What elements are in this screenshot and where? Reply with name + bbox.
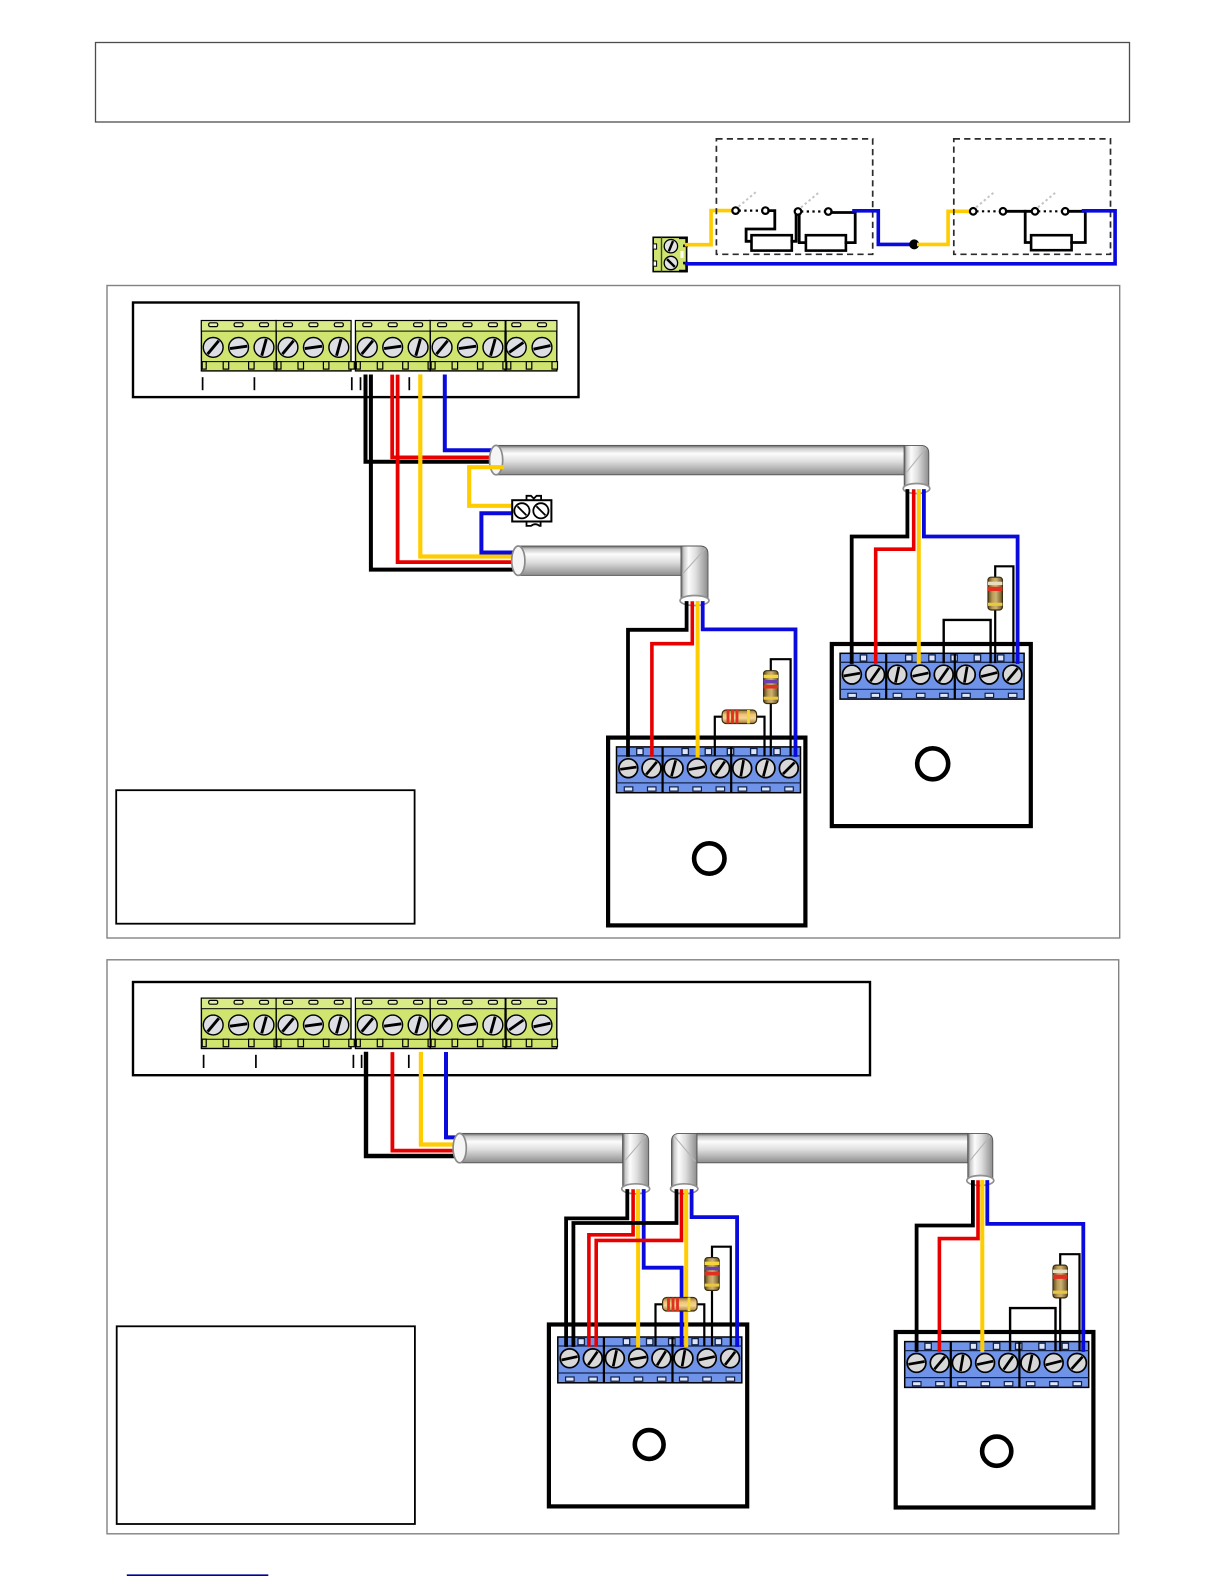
- resistor R4 bottom lead: [994, 610, 996, 662]
- conduit cable2 elbow: [680, 546, 709, 606]
- resistor R4 top lead: [995, 566, 1013, 662]
- wire blue panel2 to cable: [446, 1054, 463, 1137]
- switch S2: [795, 192, 832, 215]
- resistor R6 top lead: [771, 659, 791, 755]
- wire blue connector to cable2: [481, 513, 521, 552]
- wire yellow panel2 to cable: [421, 1054, 463, 1145]
- wire S2 to R2 left: [799, 215, 806, 243]
- panel terminal block B2: [276, 998, 354, 1048]
- dashed enclosure MCP2: [954, 139, 1111, 254]
- wire red panel2 to cable: [392, 1054, 463, 1151]
- wire yellow cable2 to device A: [696, 603, 700, 755]
- resistor R3: [1031, 235, 1072, 250]
- wire red cable1 to device B: [876, 491, 914, 662]
- panel terminal block A1: [201, 321, 279, 371]
- wire yellow to S3: [919, 211, 970, 244]
- wire red panel to cable2: [398, 377, 521, 563]
- conduit cable1 elbow: [903, 445, 930, 493]
- wire yellow panel to cable2: [420, 377, 521, 557]
- wire black cable1 to device B: [852, 491, 908, 662]
- resistor R7 left lead: [656, 1304, 663, 1345]
- resistor R7 right lead: [697, 1304, 704, 1345]
- wire tap to R3: [1025, 211, 1031, 242]
- resistor R5 left lead: [715, 717, 722, 755]
- control panel box loop1: [133, 303, 579, 398]
- tick marks panel loop1: [203, 377, 410, 390]
- panel terminal block B5: [506, 998, 558, 1048]
- resistor R1: [752, 235, 792, 250]
- terminal block TB1: [653, 237, 686, 271]
- connector block sounder: [512, 496, 551, 526]
- wire black cable2 to device A: [628, 603, 687, 755]
- call point device D box: [896, 1332, 1094, 1508]
- title box: [96, 43, 1130, 123]
- LED device B: [917, 748, 948, 779]
- wire blue panel to cable1: [445, 377, 499, 451]
- wire R2 to S2 output: [832, 213, 856, 243]
- wire blue cable2 to device D: [987, 1182, 1083, 1350]
- resistor R5 series: [722, 710, 757, 724]
- wire blue zone1 out: [854, 211, 911, 245]
- wire yellow TB1 to S1: [687, 211, 733, 245]
- tick marks panel loop2: [204, 1055, 409, 1068]
- resistor R6 bottom lead: [770, 704, 772, 755]
- wire black cable2 to device C: [573, 1191, 676, 1345]
- panel terminal block B4: [430, 998, 508, 1048]
- conduit cable2 loop2 left elbow: [671, 1133, 698, 1193]
- conduit cable2 loop2 right elbow: [967, 1133, 994, 1185]
- call point device B box: [832, 644, 1031, 826]
- wire yellow cable1 to connector: [469, 467, 512, 506]
- wire S3 to S4: [1006, 210, 1031, 213]
- wire yellow cable2 to device D: [980, 1182, 984, 1350]
- jumper wire device D: [1010, 1308, 1055, 1350]
- conduit cable 1 loop1: [490, 445, 905, 474]
- LED device A: [694, 843, 724, 873]
- call point device A box: [608, 738, 805, 926]
- conduit cable 2 loop1: [512, 546, 681, 575]
- hyperlink underline: [127, 1574, 268, 1576]
- wire red panel to cable1: [392, 377, 499, 458]
- resistor R5 right lead: [757, 717, 765, 755]
- terminal strip device B: [840, 653, 1024, 699]
- panel terminal block A4: [430, 321, 508, 371]
- conduit cable1 loop2: [453, 1133, 623, 1162]
- zone box loop2: [107, 960, 1119, 1534]
- wire black panel2 to cable: [366, 1054, 463, 1156]
- switch S3: [970, 191, 1006, 214]
- wire red cable1 to device C: [589, 1191, 633, 1345]
- wire yellow cable2 to device C: [684, 1191, 688, 1345]
- wire blue cable2 to device C: [692, 1191, 738, 1345]
- wire blue cable1 to device B: [924, 491, 1018, 662]
- conduit cable2 loop2 tube: [697, 1133, 968, 1162]
- wire red cable2 to device C: [596, 1191, 681, 1345]
- wire black panel to cable1: [366, 377, 500, 462]
- terminal strip device D: [905, 1342, 1089, 1388]
- panel terminal block B3: [356, 998, 434, 1048]
- switch S1: [732, 191, 768, 214]
- panel terminal block B1: [201, 998, 279, 1048]
- jumper wire device B: [944, 620, 991, 662]
- resistor R2: [806, 235, 846, 250]
- conduit cable1 loop2 elbow: [622, 1133, 650, 1193]
- terminal strip device A: [617, 747, 801, 793]
- terminal strip device C: [558, 1337, 742, 1383]
- resistor R6 EOL: [764, 671, 778, 704]
- resistor R9 EOL: [1053, 1265, 1067, 1298]
- resistor R7 series: [663, 1298, 698, 1312]
- resistor R8 top lead: [712, 1247, 731, 1345]
- resistor R9 top lead: [1060, 1254, 1079, 1350]
- LED device C: [635, 1430, 664, 1459]
- zone box loop1: [107, 286, 1120, 939]
- junction node: [909, 239, 919, 249]
- wire S1 to R1: [746, 211, 775, 242]
- wire yellow cable1 to device B: [917, 491, 921, 662]
- wire red cable2 to device D: [939, 1182, 978, 1350]
- control panel box loop2: [133, 982, 870, 1075]
- wire blue return to TB1: [687, 211, 1116, 264]
- note box loop2: [117, 1326, 415, 1524]
- panel terminal block A5: [506, 321, 558, 371]
- wire blue cable2 to device A: [703, 603, 796, 755]
- switch S4: [1032, 191, 1069, 214]
- wire black cable1 to device C: [566, 1191, 627, 1345]
- wire blue cable1 to device C: [644, 1191, 682, 1345]
- wire yellow cable1 to device C: [636, 1191, 640, 1345]
- dashed enclosure MCP1: [716, 139, 872, 254]
- panel terminal block A3: [356, 321, 434, 371]
- wire R1 to S2: [792, 214, 796, 241]
- wire black panel to cable2: [371, 377, 521, 570]
- resistor R8 bottom lead: [711, 1291, 713, 1345]
- resistor R8 EOL: [705, 1258, 719, 1291]
- wire black cable2 to device D: [917, 1182, 973, 1350]
- resistor R9 bottom lead: [1059, 1298, 1061, 1350]
- resistor R4 EOL: [988, 577, 1002, 610]
- panel terminal block A2: [276, 321, 354, 371]
- LED device D: [982, 1437, 1011, 1466]
- note box loop1: [116, 790, 414, 924]
- wire R3 to S4 output: [1069, 211, 1086, 242]
- wire red cable2 to device A: [652, 603, 692, 755]
- call point device C box: [549, 1325, 747, 1507]
